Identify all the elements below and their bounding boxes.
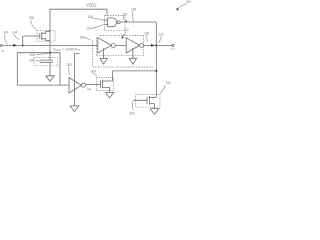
svg-text:112: 112: [124, 28, 129, 32]
svg-text:118: 118: [131, 8, 136, 12]
svg-text:314: 314: [129, 112, 134, 116]
svg-text:108: 108: [30, 53, 35, 57]
svg-text:VIN: VIN: [1, 48, 5, 53]
svg-text:108: 108: [87, 15, 92, 19]
svg-text:VBIAS = NANDVIN: VBIAS = NANDVIN: [53, 47, 80, 52]
svg-text:110: 110: [86, 27, 91, 31]
svg-text:302: 302: [67, 63, 72, 67]
svg-text:304: 304: [91, 69, 96, 73]
svg-text:116: 116: [144, 31, 149, 35]
svg-text:122: 122: [159, 33, 164, 37]
svg-text:VBIAS: VBIAS: [87, 88, 92, 91]
svg-text:300: 300: [186, 0, 191, 4]
svg-text:VOUT: VOUT: [171, 47, 177, 52]
svg-text:104: 104: [29, 58, 34, 62]
svg-text:114: 114: [3, 31, 8, 35]
svg-text:120: 120: [122, 13, 127, 17]
svg-text:104: 104: [12, 31, 17, 35]
svg-text:312: 312: [166, 81, 171, 85]
svg-text:102: 102: [79, 35, 84, 39]
svg-text:206: 206: [29, 16, 34, 20]
svg-text:VDD2: VDD2: [86, 2, 97, 7]
